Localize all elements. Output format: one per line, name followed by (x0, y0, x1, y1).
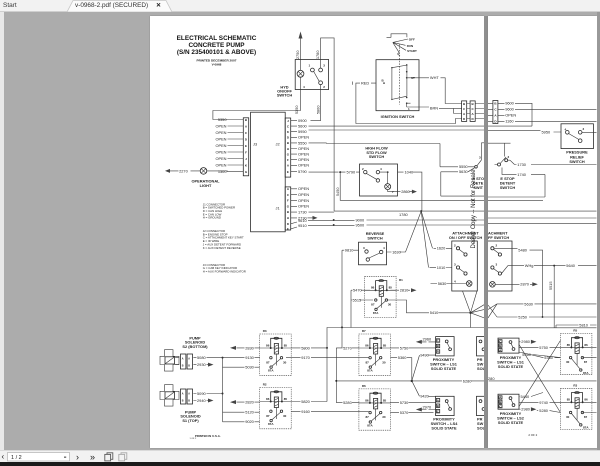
svg-text:87: 87 (266, 360, 270, 364)
svg-text:SWITCH: SWITCH (368, 154, 384, 159)
connector J1 pin strip (285, 186, 291, 230)
svg-text:SWITCH: SWITCH (500, 185, 516, 190)
svg-text:3: 3 (508, 155, 510, 159)
wire 5800 relay R3 out (291, 345, 328, 401)
svg-text:S1 (TOP): S1 (TOP) (182, 418, 199, 423)
svg-text:4: 4 (380, 167, 382, 171)
svg-text:OPEN: OPEN (215, 162, 226, 167)
note printed in usa (189, 434, 220, 440)
svg-text:280: 280 (488, 375, 495, 380)
svg-text:R1: R1 (399, 278, 403, 282)
label attachment switch p2 (488, 230, 509, 240)
wire 9490 diagonal (411, 352, 435, 380)
label proximity LS4 (430, 416, 458, 430)
label proximity LS1 (430, 356, 458, 370)
svg-text:A: A (463, 112, 466, 116)
svg-text:OPEN: OPEN (298, 186, 309, 191)
wire RED ignition feed (352, 80, 461, 123)
wire bus line b (488, 210, 597, 212)
wire 2810 detail arrow (390, 287, 416, 292)
connector J2 pin strip (285, 118, 291, 177)
svg-text:30: 30 (387, 302, 391, 306)
svg-text:3: 3 (583, 126, 585, 130)
wire 9510 9500 long line (308, 222, 485, 227)
note 2 of 2 (528, 433, 537, 437)
label proximity LS2 p2 (497, 411, 525, 425)
svg-text:5270: 5270 (343, 345, 352, 350)
svg-text:A: A (181, 357, 183, 360)
wire 2940 detail arrow (193, 397, 213, 402)
svg-text:B: B (286, 141, 289, 145)
svg-text:86: 86 (365, 398, 369, 402)
svg-text:5790: 5790 (298, 169, 307, 174)
svg-text:D: D (463, 117, 466, 121)
svg-text:2960: 2960 (422, 336, 431, 341)
svg-text:5370: 5370 (399, 410, 408, 415)
wire 5640 (502, 263, 597, 274)
wire 5370 out (390, 410, 433, 415)
relay R6 (358, 384, 390, 430)
wire 5515 drop (548, 265, 554, 327)
svg-text:WHT: WHT (429, 75, 438, 80)
svg-text:85: 85 (382, 398, 386, 402)
svg-text:1780: 1780 (314, 49, 319, 58)
svg-text:86: 86 (584, 342, 588, 346)
svg-text:R3: R3 (573, 383, 577, 387)
svg-text:5630: 5630 (524, 301, 533, 306)
svg-text:FF SWITCH: FF SWITCH (488, 234, 509, 239)
svg-text:87A: 87A (268, 368, 274, 372)
wire 1730 1780 long line (308, 210, 484, 217)
wire 5950 long run to pressure relief (308, 129, 484, 131)
wires J2 right pins (290, 120, 296, 171)
connector X3 pins B C A D (488, 100, 498, 123)
wire 5750 to proximity LS1 (390, 345, 435, 350)
svg-text:OPEN: OPEN (298, 203, 309, 208)
relay R2 (259, 382, 291, 428)
svg-text:Dealer Copy -- Not for Resale: Dealer Copy -- Not for Resale (471, 168, 477, 248)
svg-text:D: D (286, 135, 289, 139)
svg-text:9740: 9740 (539, 400, 548, 405)
wire 5360 drop (390, 355, 411, 381)
wire WHT ignition ST (406, 75, 461, 103)
svg-text:WHg: WHg (525, 263, 534, 268)
svg-text:86: 86 (365, 343, 369, 347)
svg-text:5470: 5470 (353, 287, 362, 292)
svg-text:G: G (286, 204, 289, 208)
svg-text:5080: 5080 (197, 355, 206, 360)
labels J1 right wires (298, 186, 309, 228)
svg-text:E: E (286, 226, 288, 230)
proximity switch LS2 p2 (498, 394, 519, 409)
svg-text:OPEN: OPEN (215, 142, 226, 147)
svg-text:ELECTRICAL SCHEMATIC: ELECTRICAL SCHEMATIC (176, 35, 256, 42)
svg-text:2870: 2870 (520, 281, 529, 286)
svg-text:4: 4 (303, 85, 305, 89)
svg-text:9810: 9810 (344, 247, 353, 252)
svg-text:9600: 9600 (505, 100, 514, 105)
svg-text:OPEN: OPEN (215, 149, 226, 154)
svg-text:OPEN: OPEN (298, 157, 309, 162)
svg-text:H = GROUND: H = GROUND (202, 215, 220, 219)
wire 2820 detail arrow (230, 399, 260, 404)
svg-text:1630: 1630 (392, 249, 401, 254)
svg-text:SOLID STATE: SOLID STATE (498, 420, 524, 425)
svg-text:3: 3 (496, 262, 498, 266)
wire 5360 crossing (522, 352, 561, 360)
wire 2970 detail arrow (415, 404, 435, 411)
svg-text:9490: 9490 (420, 352, 429, 357)
wire 5820 relay R2 out (291, 398, 327, 403)
svg-text:9600: 9600 (505, 106, 514, 111)
wire 5440 (519, 392, 543, 398)
svg-text:A: A (188, 392, 190, 395)
svg-text:»: » (90, 452, 95, 462)
switch pressure relief (561, 123, 597, 148)
svg-text:C: C (471, 107, 474, 111)
wire 9740 crossing (519, 400, 560, 405)
svg-text:4: 4 (383, 246, 385, 250)
svg-text:OPEN: OPEN (298, 145, 309, 150)
wire bus line a (488, 174, 545, 200)
svg-text:85: 85 (567, 342, 571, 346)
wire 9610 9000 long line (308, 217, 485, 222)
svg-text:OPEN: OPEN (215, 136, 226, 141)
svg-text:5810: 5810 (579, 322, 588, 327)
svg-text:5750: 5750 (399, 345, 408, 350)
svg-text:5515: 5515 (352, 297, 361, 302)
wire OPEN pin (498, 112, 517, 117)
wire 5410 to junction (387, 300, 470, 315)
label PRESSURE RELIEF SWITCH (566, 149, 588, 164)
svg-text:5800: 5800 (315, 104, 320, 113)
svg-text:D: D (471, 117, 474, 121)
svg-text:2930: 2930 (197, 362, 206, 367)
svg-text:85: 85 (382, 343, 386, 347)
switch E-stop detent p1 (474, 142, 484, 167)
svg-text:87: 87 (584, 360, 588, 364)
svg-text:B: B (471, 102, 474, 106)
note J1 connector legend (202, 202, 234, 219)
svg-text:5090: 5090 (197, 390, 206, 395)
svg-text:2270: 2270 (179, 168, 188, 173)
wire 5460 (519, 351, 560, 357)
svg-text:5730: 5730 (399, 400, 408, 405)
wire 2870 detail arrow (495, 281, 538, 286)
svg-text:87: 87 (365, 360, 369, 364)
svg-text:OPEN: OPEN (298, 162, 309, 167)
svg-text:OPEN: OPEN (215, 155, 226, 160)
svg-text:‹: ‹ (2, 452, 5, 461)
wire 9020 (222, 412, 259, 424)
svg-text:87: 87 (584, 415, 588, 419)
wire 1740 estop out (502, 167, 545, 176)
svg-text:5800: 5800 (301, 345, 310, 350)
svg-text:K: K (286, 130, 289, 134)
wire 5600 long run to pressure relief (308, 125, 484, 127)
wire 5090 (193, 390, 223, 395)
svg-text:B: B (181, 364, 183, 367)
switch S1 HYD ON/OFF (295, 59, 328, 89)
svg-text:K = AUX DETENT REVERSE: K = AUX DETENT REVERSE (202, 245, 240, 249)
svg-text:2: 2 (496, 243, 498, 247)
svg-text:RED: RED (361, 80, 369, 85)
svg-text:5480: 5480 (518, 247, 527, 252)
svg-text:J3: J3 (253, 141, 257, 146)
svg-text:B: B (188, 399, 190, 402)
wire 2980 detail arrow (519, 339, 536, 344)
wires J1 right pins (290, 188, 296, 228)
svg-text:9170: 9170 (301, 355, 310, 360)
svg-text:2: 2 (362, 167, 364, 171)
svg-text:SWITCH: SWITCH (569, 159, 585, 164)
svg-text:87A: 87A (367, 368, 373, 372)
svg-text:5410: 5410 (429, 310, 438, 315)
wire 2960 detail arrow (415, 336, 435, 343)
svg-text:1 / 2: 1 / 2 (11, 455, 22, 461)
svg-text:9420: 9420 (420, 393, 429, 398)
svg-text:87A: 87A (268, 422, 274, 426)
proximity switch LS4 (435, 396, 454, 415)
svg-text:2940: 2940 (197, 397, 206, 402)
svg-text:5950: 5950 (298, 129, 307, 134)
svg-text:A: A (471, 112, 474, 116)
wire 5630 line (497, 301, 597, 306)
wire 5120 (222, 409, 259, 414)
svg-text:F: F (286, 198, 288, 202)
svg-text:9500: 9500 (355, 222, 364, 227)
svg-text:RUN: RUN (406, 43, 413, 47)
wire 9810 reverse feed (342, 247, 359, 327)
svg-text:2830: 2830 (245, 345, 254, 350)
wire 5630 attachment lamp (430, 280, 466, 285)
svg-text:J1: J1 (275, 205, 279, 210)
svg-text:1730: 1730 (517, 161, 526, 166)
svg-text:R3: R3 (262, 329, 266, 333)
svg-text:SOL: SOL (477, 425, 485, 430)
wire 5470 relay R1 coil (351, 287, 370, 292)
svg-text:2 OF 2: 2 OF 2 (528, 433, 537, 437)
svg-text:J: J (287, 118, 289, 122)
svg-text:87A: 87A (367, 423, 373, 427)
svg-text:BRN: BRN (429, 105, 437, 110)
svg-text:PRINTED IN U.S.A.: PRINTED IN U.S.A. (194, 434, 220, 438)
wire 5730 to proximity LS4 (390, 400, 435, 405)
svg-text:86: 86 (584, 397, 588, 401)
svg-text:5820: 5820 (301, 398, 310, 403)
svg-text:B: B (188, 364, 190, 367)
svg-text:F: F (245, 150, 247, 154)
wire 5790 J2-E to high flow switch (308, 169, 359, 174)
svg-text:85: 85 (283, 343, 287, 347)
svg-text:6280: 6280 (462, 378, 471, 383)
svg-text:R6: R6 (361, 384, 365, 388)
svg-text:C: C (286, 192, 289, 196)
wire 5600 continuation (488, 125, 532, 127)
wire bus line d (488, 326, 597, 328)
svg-text:5950: 5950 (542, 129, 551, 134)
svg-text:5515: 5515 (548, 281, 553, 290)
svg-text:86: 86 (266, 396, 270, 400)
svg-text:5350: 5350 (293, 104, 298, 113)
svg-text:R7: R7 (361, 329, 365, 333)
svg-text:START: START (407, 48, 417, 52)
svg-text:IGNITION SWITCH: IGNITION SWITCH (380, 114, 414, 119)
wire 9170 relay R3 to R7 (286, 355, 369, 360)
svg-text:3: 3 (454, 262, 456, 266)
wire 9600 b (498, 106, 597, 111)
svg-text:A: A (286, 163, 289, 167)
svg-text:5630: 5630 (459, 169, 468, 174)
wire 1010 attachment feed (421, 211, 452, 270)
svg-text:OPEN: OPEN (298, 197, 309, 202)
wire 5550 estop label (440, 164, 475, 169)
svg-text:OPEN: OPEN (298, 192, 309, 197)
wire BRN ignition (406, 103, 461, 111)
labels J2 right wires (298, 118, 309, 174)
svg-text:SOLID STATE: SOLID STATE (498, 363, 524, 368)
arrow 2730 detail (307, 215, 317, 219)
svg-text:B: B (381, 78, 384, 82)
wire 5250 line (497, 314, 597, 319)
svg-text:86: 86 (370, 285, 374, 289)
svg-text:30: 30 (382, 360, 386, 364)
svg-text:87A: 87A (372, 310, 378, 314)
svg-text:85: 85 (283, 396, 287, 400)
svg-text:1780: 1780 (399, 211, 408, 216)
wire 2830 detail arrow (230, 345, 260, 350)
svg-text:2820: 2820 (245, 399, 254, 404)
wire 1040 to detent line (397, 169, 421, 211)
svg-text:2810: 2810 (399, 287, 408, 292)
svg-text:OPEN: OPEN (215, 129, 226, 134)
svg-text:3: 3 (479, 155, 481, 159)
wire 5270 relay R7 feed (336, 345, 359, 350)
relay R7 (358, 329, 390, 375)
wire 5450 drop to relay feed line (335, 172, 484, 200)
label 280 clipped (488, 375, 495, 380)
svg-text:1010: 1010 (436, 264, 445, 269)
svg-text:1 OF 2: 1 OF 2 (189, 438, 196, 440)
note J3 connector legend (202, 262, 245, 273)
power arrow 2750 (295, 31, 302, 59)
svg-text:F: F (286, 158, 288, 162)
svg-text:5350: 5350 (217, 116, 226, 121)
svg-text:LIGHT: LIGHT (199, 182, 211, 187)
label E STOP DETENT SWITCH p2 (500, 176, 516, 190)
svg-text:2750: 2750 (295, 49, 300, 58)
svg-text:OPEN: OPEN (215, 123, 226, 128)
svg-text:87A: 87A (583, 425, 589, 429)
ignition key symbol (386, 33, 417, 55)
wire 6280 long line (336, 378, 484, 383)
svg-text:9020: 9020 (245, 419, 254, 424)
wire 5280 crossing (537, 408, 561, 413)
svg-text:2980: 2980 (521, 339, 530, 344)
svg-text:OPEN: OPEN (505, 112, 516, 117)
wire 9420 diagonal (411, 380, 435, 398)
svg-text:5030: 5030 (245, 364, 254, 369)
label OPERATIONAL LIGHT (191, 178, 220, 187)
svg-text:D: D (286, 221, 289, 225)
wire 5950 to pressure relief (488, 129, 561, 134)
svg-text:J2: J2 (275, 141, 279, 146)
switch S2 ignition (376, 44, 419, 111)
svg-text:A: A (244, 124, 247, 128)
svg-text:86: 86 (266, 343, 270, 347)
svg-text:9130: 9130 (245, 355, 254, 360)
wire 5750 crossing (519, 344, 560, 349)
svg-text:B: B (181, 399, 183, 402)
svg-text:1730: 1730 (298, 209, 307, 214)
svg-text:E: E (244, 143, 246, 147)
wire 5800 crosslink (327, 327, 342, 347)
label IGNITION SWITCH (380, 114, 414, 119)
note J2 connector legend (202, 228, 243, 249)
svg-text:9160: 9160 (301, 409, 310, 414)
svg-text:V-0968: V-0968 (211, 62, 221, 66)
svg-text:SWITCH: SWITCH (276, 92, 292, 97)
svg-text:(S/N 235400101 & ABOVE): (S/N 235400101 & ABOVE) (176, 49, 255, 56)
relay R5 (560, 328, 596, 374)
relay R1 (364, 276, 403, 317)
svg-text:4: 4 (454, 279, 456, 283)
svg-text:D: D (494, 119, 497, 123)
svg-text:30: 30 (566, 360, 570, 364)
switch reverse (358, 231, 386, 265)
svg-text:30: 30 (283, 360, 287, 364)
svg-text:SWITCH: SWITCH (367, 235, 383, 240)
wire 5250 long line bottom (341, 326, 485, 348)
wire 9160 relay R2 out (291, 409, 369, 414)
svg-text:C: C (463, 107, 466, 111)
wire bus line c (488, 218, 597, 223)
svg-text:A: A (286, 187, 289, 191)
svg-text:1: 1 (308, 63, 310, 67)
svg-text:B: B (463, 102, 466, 106)
svg-text:C: C (244, 130, 247, 134)
wire 5515 relay R1 contact (351, 290, 373, 327)
wire to pin A (453, 108, 461, 113)
solenoid S1 pump top (160, 384, 201, 422)
svg-text:5120: 5120 (245, 409, 254, 414)
svg-text:85: 85 (567, 397, 571, 401)
switch attachment on/off p2 (488, 241, 512, 291)
switch attachment on/off p1 (448, 230, 481, 291)
svg-text:SOLID STATE: SOLID STATE (431, 425, 457, 430)
svg-text:B: B (286, 210, 289, 214)
svg-text:5280: 5280 (343, 400, 352, 405)
partial switch box top right (476, 336, 485, 370)
svg-text:G: G (286, 152, 289, 156)
connector X1 pins B C A D (461, 100, 466, 121)
svg-text:H = AUX FORWARD INDICATOR: H = AUX FORWARD INDICATOR (202, 269, 245, 273)
wire net 5550 estop feed (308, 142, 440, 166)
svg-text:B: B (244, 117, 247, 121)
proximity switch LS1 p2 (498, 338, 519, 353)
wire 2860 detail arrow (387, 189, 416, 194)
svg-text:5250: 5250 (518, 314, 527, 319)
svg-text:3: 3 (323, 63, 325, 67)
connector X2 pins B C A D (470, 100, 475, 121)
svg-text:1620: 1620 (436, 245, 445, 250)
svg-text:85: 85 (388, 285, 392, 289)
svg-text:30: 30 (566, 415, 570, 419)
wire 1730 estop out (510, 160, 597, 167)
svg-text:G: G (244, 169, 247, 173)
wire 1620 attachment feed (421, 211, 452, 251)
labels J3 left wires (215, 116, 227, 173)
